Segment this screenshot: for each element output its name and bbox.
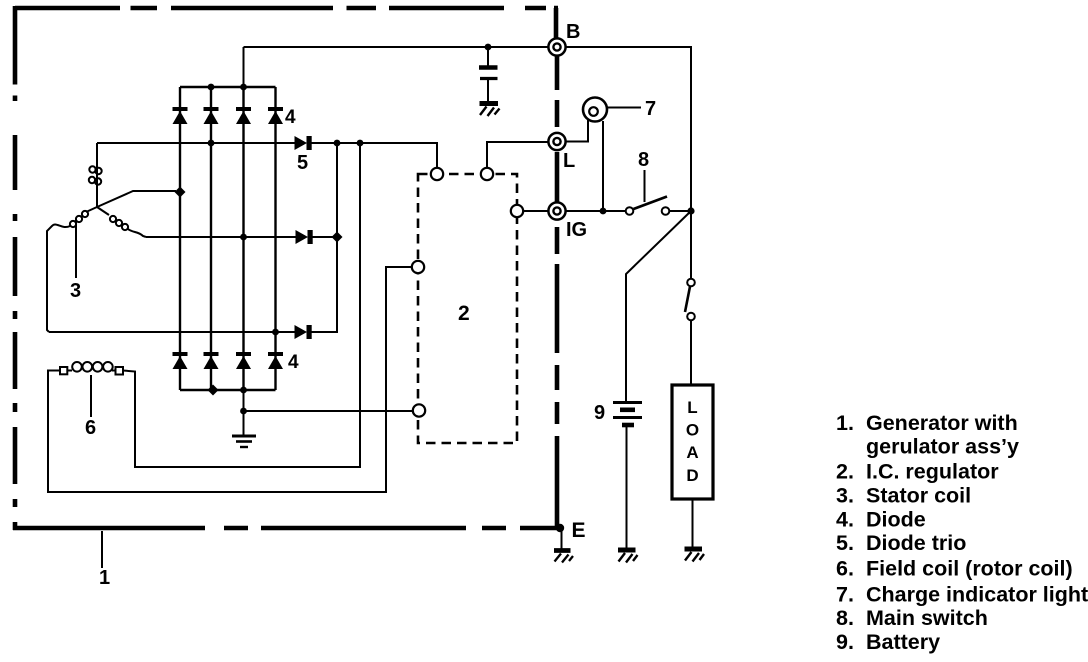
- diode trio DT3: [295, 325, 312, 339]
- wire phase C output line: [49, 329, 295, 336]
- label 4 bottom diode row: [288, 352, 299, 373]
- rectifier negative ground stem: [240, 390, 247, 436]
- svg-text:B: B: [566, 21, 580, 43]
- svg-text:Diode: Diode: [866, 508, 926, 532]
- diode trio DT2: [296, 230, 313, 244]
- label 3 stator coil: [70, 280, 81, 302]
- label 3 leader line: [75, 218, 77, 278]
- diode D6 bottom (4): [204, 352, 219, 369]
- diode D3 top (4): [236, 107, 251, 124]
- label 6 leader line: [90, 375, 92, 417]
- wire trio line 1 output to regulator terminal: [311, 140, 437, 167]
- svg-text:1: 1: [99, 567, 110, 589]
- svg-text:5.: 5.: [836, 531, 854, 555]
- wire switch to right rail junction: [669, 207, 694, 214]
- IC regulator box 2 dashed: [418, 174, 517, 443]
- svg-text:IG: IG: [566, 219, 587, 241]
- regulator terminal T3: [511, 205, 523, 217]
- terminal E junction dot: [556, 524, 564, 532]
- diode D1 top (4): [173, 107, 188, 124]
- LOAD box: [672, 385, 713, 499]
- wire phase A output to diode trio line 1: [97, 140, 295, 147]
- load switch: [685, 279, 695, 321]
- wire trio line 2 to trio bus: [312, 236, 337, 238]
- wire IG to main switch: [566, 210, 626, 212]
- rectifier vertical line 2: [210, 87, 212, 390]
- chassis ground load: [685, 549, 705, 562]
- svg-text:Field coil (rotor coil): Field coil (rotor coil): [866, 557, 1073, 581]
- svg-text:6.: 6.: [836, 557, 854, 581]
- svg-text:Main switch: Main switch: [866, 606, 988, 630]
- diode trio common bus vertical: [311, 143, 343, 332]
- capacitor C1: [479, 47, 498, 101]
- rectifier vertical line 4: [274, 87, 276, 390]
- svg-text:3: 3: [70, 280, 81, 302]
- label E: [572, 519, 586, 542]
- svg-text:A: A: [686, 443, 698, 462]
- svg-text:L: L: [687, 398, 697, 417]
- svg-text:3.: 3.: [836, 484, 854, 508]
- field coil terminal square right: [116, 367, 124, 375]
- svg-text:Stator coil: Stator coil: [866, 484, 971, 508]
- legend list: [836, 411, 1088, 654]
- wire phase B output line: [146, 234, 296, 241]
- label L: [563, 150, 575, 172]
- regulator terminal T5: [413, 404, 425, 416]
- wire top B+ line to terminal B: [244, 44, 549, 51]
- svg-text:Diode trio: Diode trio: [866, 531, 966, 555]
- diode trio DT1: [295, 136, 312, 150]
- svg-text:7: 7: [645, 98, 656, 120]
- label 5 diode trio: [297, 152, 308, 174]
- label 9 battery: [594, 402, 605, 424]
- chassis ground for capacitor: [480, 104, 500, 117]
- svg-text:4: 4: [288, 352, 299, 373]
- svg-text:2.: 2.: [836, 460, 854, 484]
- field coil (6) windings: [67, 362, 115, 372]
- chassis ground E: [554, 551, 573, 563]
- stator phase A coil vertical: [89, 143, 102, 207]
- diode D8 bottom (4): [268, 352, 283, 369]
- svg-text:4: 4: [285, 107, 296, 128]
- stator star point diagonal wire to rectifier line 1: [97, 187, 186, 208]
- label 8 leader line: [644, 170, 646, 202]
- generator case border box 1 top edge: [15, 6, 558, 11]
- wire terminal B to right rail: [566, 47, 691, 211]
- field coil terminal square left: [60, 367, 67, 374]
- wire rectifier negative to regulator lower terminal: [244, 410, 413, 412]
- svg-text:D: D: [686, 466, 698, 485]
- diode D5 bottom (4): [173, 352, 188, 369]
- svg-text:6: 6: [85, 417, 96, 439]
- label IG: [566, 219, 587, 241]
- wire battery to ground: [626, 427, 628, 548]
- svg-text:8: 8: [638, 149, 649, 171]
- generator case border box 1 bottom edge: [13, 526, 560, 531]
- wire B+ riser from rectifier to top line: [243, 47, 245, 87]
- charge indicator light 7: [583, 98, 607, 122]
- label 4 top diode row: [285, 107, 296, 128]
- svg-text:7.: 7.: [836, 583, 854, 607]
- label 1 generator assembly: [99, 567, 110, 589]
- generator case border box 1 left edge: [13, 6, 18, 530]
- wire right rail to load switch: [690, 211, 692, 279]
- rectifier top bus wire: [180, 84, 276, 91]
- earth ground rectifier: [232, 436, 256, 447]
- regulator terminal T2: [481, 168, 493, 180]
- wire E to ground: [561, 530, 563, 549]
- wire regulator T3 to terminal IG: [523, 210, 548, 212]
- wire field coil left to regulator terminal F down-around: [48, 267, 412, 492]
- svg-text:O: O: [686, 421, 699, 440]
- svg-text:2: 2: [458, 302, 470, 325]
- stator phase C winding (right): [97, 207, 146, 237]
- terminal B double circle: [548, 38, 565, 55]
- wire diagonal to battery branch: [626, 211, 691, 401]
- label 2 regulator: [458, 302, 470, 325]
- diode D4 top (4): [268, 107, 283, 124]
- wire LOAD box to ground: [692, 499, 694, 547]
- rectifier vertical line 1: [179, 87, 181, 390]
- svg-text:4.: 4.: [836, 508, 854, 532]
- regulator terminal T1: [431, 168, 443, 180]
- svg-text:I.C. regulator: I.C. regulator: [866, 460, 999, 484]
- main switch 8: [626, 197, 670, 215]
- svg-text:Charge indicator light: Charge indicator light: [866, 583, 1088, 607]
- label B: [566, 21, 580, 43]
- wire regulator T2 to terminal L: [487, 142, 549, 168]
- diode D2 top (4): [204, 107, 219, 124]
- diode D7 bottom (4): [236, 352, 251, 369]
- generator case border box 1 right edge: [556, 8, 557, 528]
- svg-text:gerulator ass’y: gerulator ass’y: [866, 435, 1019, 459]
- label 7 charge lamp: [645, 98, 656, 120]
- chassis ground battery: [618, 550, 638, 563]
- terminal IG double circle: [548, 202, 565, 219]
- svg-text:5: 5: [297, 152, 308, 174]
- wire L to charge lamp: [566, 120, 588, 142]
- stator phase B winding (left): [47, 207, 97, 332]
- wire field coil right to diode trio output: [123, 143, 360, 467]
- label 8 main switch: [638, 149, 649, 171]
- regulator terminal T4: [412, 261, 424, 273]
- label 6 field coil: [85, 417, 96, 439]
- battery 9: [613, 403, 642, 426]
- svg-text:Generator with: Generator with: [866, 411, 1018, 435]
- label 1 leader line: [101, 531, 103, 568]
- svg-text:8.: 8.: [836, 606, 854, 630]
- svg-text:9: 9: [594, 402, 605, 424]
- rectifier vertical line 3: [242, 87, 244, 390]
- terminal L double circle: [548, 133, 565, 150]
- rectifier bottom bus wire: [180, 385, 276, 396]
- wire lamp down to IG line: [600, 121, 607, 214]
- svg-text:9.: 9.: [836, 630, 854, 654]
- svg-text:1.: 1.: [836, 411, 854, 435]
- svg-text:L: L: [563, 150, 575, 172]
- wire load switch to LOAD box: [690, 320, 692, 385]
- wire lamp to label 7: [607, 107, 641, 109]
- svg-text:E: E: [572, 519, 586, 542]
- svg-text:Battery: Battery: [866, 630, 940, 654]
